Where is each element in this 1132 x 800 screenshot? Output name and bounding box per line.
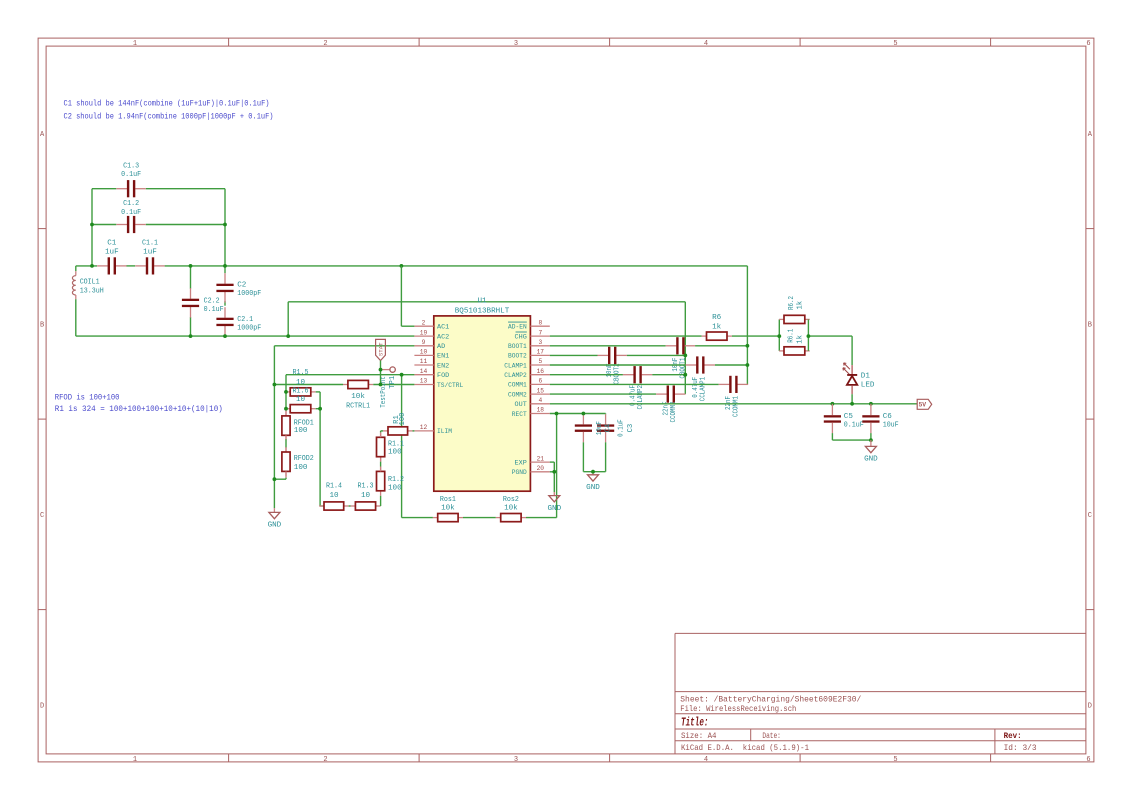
svg-text:100: 100 [294,427,308,435]
wire left cap-bank vertical x=92 [91,189,93,266]
wire bottom row [320,505,324,507]
wire R1.1 to R1 [380,431,382,433]
resistor Ros2 [496,514,526,522]
wire COMM1 row [550,383,719,385]
svg-text:GND: GND [268,522,282,530]
capacitor C1.3 [116,180,145,197]
svg-text:COMM2: COMM2 [508,391,527,399]
pin 12 ILIM [414,424,452,436]
svg-text:1000pF: 1000pF [237,290,261,298]
svg-text:10k: 10k [441,504,455,512]
svg-text:10: 10 [329,492,339,500]
svg-text:C1: C1 [107,240,117,248]
resistor RFOD2 [282,447,290,476]
svg-text:18: 18 [537,407,545,414]
ground [586,475,600,492]
junction node (556.5,413.5) [555,412,559,416]
wire Ros riser to RECT [556,414,558,518]
svg-text:CCOMM1: CCOMM1 [733,396,741,417]
svg-text:KiCad E.D.A. kicad (5.1.9)-1: KiCad E.D.A. kicad (5.1.9)-1 [681,743,809,753]
svg-text:B: B [40,321,44,329]
wire CHG row [550,335,702,337]
wire Ros row [402,517,433,519]
wire CLAMP2 row [550,374,623,376]
wire AC2 riser [287,302,289,336]
pin 18 RECT [512,407,550,419]
svg-text:0.1uF: 0.1uF [204,306,224,314]
svg-text:10: 10 [296,396,306,404]
wire PGND to GND [550,471,555,473]
svg-text:CCLAMP1: CCLAMP1 [700,377,708,402]
wire C2.2 branch [190,266,192,289]
junction node (92,224.5) [90,223,94,227]
wire AC1 main row [76,265,97,267]
capacitor C2.2 [182,288,199,317]
pin 20 PGND [512,465,550,477]
svg-text:COIL1: COIL1 [80,279,100,287]
svg-text:ILIM: ILIM [437,428,452,436]
wire RECT row [550,413,606,415]
svg-text:10uF: 10uF [883,421,899,429]
wire CLAMP1 row [550,364,686,366]
svg-text:C2: C2 [237,282,247,290]
svg-text:2: 2 [422,319,426,326]
capacitor CCLAMP2 [623,366,652,383]
pin 11 EN2 [414,358,449,370]
svg-text:C1 should be 144nF(combine (1u: C1 should be 144nF(combine (1uF+1uF)|0.1… [64,100,270,109]
svg-text:1: 1 [133,756,137,764]
wire BOOT1 row [550,345,666,347]
svg-text:EN2: EN2 [437,362,449,370]
wire BOOT2 row [550,354,598,356]
resistor Ros1 [433,514,463,522]
wire R1.5/R1.6 right column [316,391,320,393]
capacitor C3 branch [605,413,607,416]
pin 10 EN1 [414,349,449,361]
junction node (286,391.9) [284,390,288,394]
svg-text:TP1: TP1 [389,376,397,389]
svg-text:3: 3 [514,40,518,48]
svg-text:C3: C3 [627,424,635,433]
pin 14 FOD [414,368,449,380]
junction node (380.5,369.6) [379,368,383,372]
junction node (401.6,374.7) [400,373,404,377]
svg-text:10: 10 [296,379,306,387]
svg-text:6: 6 [1086,756,1090,764]
resistor RCTRL1 [343,380,373,388]
svg-text:1k: 1k [797,301,805,310]
pin 8 AD-EN [508,319,550,331]
junction node (808.4,336.1) [807,334,811,338]
capacitor CBOOT1 [666,337,695,354]
pin 17 BOOT2 [508,349,550,361]
svg-text:3: 3 [514,756,518,764]
svg-text:R1.3: R1.3 [358,483,374,491]
svg-text:1000pF: 1000pF [237,325,261,333]
title block [675,633,1086,754]
svg-text:C1.3: C1.3 [123,162,139,170]
capacitor C1.2 [116,216,145,233]
svg-text:100: 100 [399,413,407,426]
capacitor C1.1 [135,257,164,274]
junction node (779.3,336.1) [777,334,781,338]
svg-text:AC2: AC2 [437,333,449,341]
svg-text:RCTRL1: RCTRL1 [346,403,370,411]
wire AD row [274,345,414,347]
svg-text:100: 100 [388,484,402,492]
svg-text:C2 should be 1.94nF(combine 10: C2 should be 1.94nF(combine 1000pF|1000p… [64,113,274,122]
svg-text:19: 19 [420,329,428,336]
wire C5/C6 bottom [832,439,871,441]
svg-text:10: 10 [420,349,428,356]
ground [268,512,282,529]
svg-text:4: 4 [538,397,542,404]
svg-text:10: 10 [361,492,371,500]
junction node (225,224.5) [223,223,227,227]
power flag 5V [917,399,932,409]
svg-text:2: 2 [323,756,327,764]
resistor R1.3 [351,502,381,510]
svg-text:C1.1: C1.1 [142,240,158,248]
resistor R1.1 [377,432,385,461]
svg-text:BQ51013BRHLT: BQ51013BRHLT [455,307,510,315]
svg-text:C6: C6 [883,413,893,421]
wire AC2 drop to BOOT2/CLAMP2/COMM2 caps [684,302,686,394]
svg-text:15: 15 [537,387,545,394]
pin 3 BOOT1 [508,339,550,351]
resistor R6.1 [779,347,810,355]
svg-text:21: 21 [537,455,545,462]
svg-text:6: 6 [1086,40,1090,48]
svg-text:5V: 5V [918,402,926,409]
svg-text:100: 100 [388,449,402,457]
junction node (593,471.7) [591,470,595,474]
wire COMM2 row [550,393,656,395]
svg-text:6: 6 [538,378,542,385]
svg-text:10uF: 10uF [596,421,604,435]
junction node (320.1,408.7) [318,407,322,411]
resistor RFOD1 [282,411,290,440]
junction node (685.3,374.7) [683,373,687,377]
capacitor C4 [575,424,592,432]
wire R1 to ILIM [413,430,415,432]
svg-text:3: 3 [538,339,542,346]
wire AC2 upper run [288,301,685,303]
capacitor C4 branch [582,414,584,425]
junction node (92,265.9) [90,264,94,268]
svg-text:10k: 10k [504,504,518,512]
resistor R6 [702,332,732,340]
svg-text:C5: C5 [844,413,854,421]
svg-text:12: 12 [420,424,428,431]
svg-text:9: 9 [422,339,426,346]
svg-text:C1.2: C1.2 [123,200,139,208]
svg-text:C: C [1088,512,1092,520]
svg-text:RFOD2: RFOD2 [294,455,314,463]
svg-text:10k: 10k [351,393,365,401]
svg-text:R6: R6 [712,314,722,322]
svg-text:Sheet: /BatteryCharging/Sheet6: Sheet: /BatteryCharging/Sheet609E2F30/ [680,694,861,704]
svg-text:CCOMM2: CCOMM2 [670,402,678,423]
svg-text:COMM1: COMM1 [508,382,527,390]
svg-text:7: 7 [538,329,542,336]
junction node (583.4,413.5) [582,412,586,416]
svg-text:BOOT2: BOOT2 [508,353,527,361]
svg-text:FOD: FOD [437,372,449,380]
svg-text:Ros2: Ros2 [503,496,519,504]
capacitor CCLAMP1 [686,356,715,373]
svg-text:C2.1: C2.1 [237,316,253,324]
wire C1.3 row [92,188,116,190]
svg-text:8: 8 [538,319,542,326]
svg-text:CHG: CHG [515,333,527,341]
junction node (225,265.9) [223,264,227,268]
capacitor C2.1 [216,307,233,336]
svg-text:D: D [40,702,44,710]
ground [547,496,561,513]
wire TP node to TS row [380,370,382,385]
svg-text:GND: GND [586,484,600,492]
svg-text:TS/CTRL: TS/CTRL [437,382,463,390]
capacitor CCOMM2 [656,386,685,403]
resistor R1.4 [319,502,349,510]
svg-text:CLAMP2: CLAMP2 [504,372,527,380]
svg-text:RECT: RECT [512,411,527,419]
svg-text:1uF: 1uF [143,249,157,257]
svg-text:LED: LED [861,381,875,389]
svg-text:R6.2: R6.2 [788,296,796,310]
pin 16 CLAMP2 [504,368,550,380]
pin 9 AD [414,339,445,351]
wire EXP to PGND [550,461,555,463]
svg-text:4: 4 [704,40,708,48]
svg-text:0.1uF: 0.1uF [844,421,864,429]
wire STAT to node [380,361,382,370]
svg-text:R6.1: R6.1 [787,329,795,343]
svg-text:CLAMP1: CLAMP1 [504,362,527,370]
junction node (274.4,479.2) [273,477,277,481]
wire RFOD2 bottom to GND column [285,478,287,480]
wire AC1 pin drop [400,266,402,326]
wire FOD row [286,374,414,376]
resistor R1.5 [285,388,315,396]
svg-text:D: D [1088,702,1092,710]
svg-text:1k: 1k [712,324,722,332]
wire R6 pair right column [807,319,809,351]
wire RFOD stub [285,409,287,416]
svg-text:AD-EN: AD-EN [508,324,527,332]
pin 15 COMM2 [508,387,550,399]
svg-text:EN1: EN1 [437,353,449,361]
resistor R6.2 [779,315,810,323]
junction node (286,408.7) [284,407,288,411]
junction node (401.4,265.9) [400,264,404,268]
svg-text:R1 is 324 = 100+100+100+10+10+: R1 is 324 = 100+100+100+10+10+(10|10) [55,405,223,414]
svg-text:C: C [40,512,44,520]
capacitor C3 [597,424,614,432]
svg-text:14: 14 [420,368,428,375]
pin 5 CLAMP1 [504,358,550,370]
svg-text:GND: GND [547,505,561,513]
wire C1.2 row [92,224,116,226]
svg-text:5: 5 [893,756,897,764]
svg-text:17: 17 [537,349,545,356]
svg-text:PGND: PGND [512,469,527,477]
test point TP1 [380,367,397,408]
junction node (852.1,403.8) [850,402,854,406]
svg-text:1k: 1k [796,335,804,344]
junction node (685.3,355.4) [683,354,687,358]
svg-text:B: B [1088,321,1092,329]
svg-text:Rev:: Rev: [1004,732,1022,741]
pin 6 COMM1 [508,378,550,390]
capacitor C1 [97,257,126,274]
resistor R1.2 [377,467,385,496]
svg-text:D1: D1 [861,372,871,380]
svg-text:13: 13 [420,378,428,385]
pin 13 TS/CTRL [414,378,463,390]
svg-text:AC1: AC1 [437,324,449,332]
svg-text:AD: AD [437,343,445,351]
wires C3/C4 bottoms [582,442,584,471]
junction node (747.4,345.8) [746,344,750,348]
LED D1 [843,363,857,394]
capacitor CCOMM1 [719,376,748,393]
svg-text:U1: U1 [477,297,487,305]
svg-text:13.3uH: 13.3uH [80,287,104,295]
svg-text:1: 1 [133,40,137,48]
svg-text:C4: C4 [604,424,612,433]
svg-text:R1.4: R1.4 [326,483,342,491]
svg-text:R1.2: R1.2 [388,476,404,484]
wire R1.2 riser [380,496,382,506]
svg-text:5: 5 [893,40,897,48]
svg-text:2: 2 [323,40,327,48]
svg-text:RFOD is 100+100: RFOD is 100+100 [55,394,120,403]
capacitor C2 [216,273,233,302]
svg-text:GND: GND [864,456,878,464]
junction node (832.4,403.8) [831,402,835,406]
svg-text:STAT: STAT [378,342,385,356]
capacitor C5 [824,415,841,422]
svg-text:0.1uF: 0.1uF [121,171,141,179]
pin 4 OUT [515,397,550,409]
junction node (870.9,403.8) [869,402,873,406]
wire AC1 drop to BOOT1/CLAMP1/COMM1 caps [746,266,748,385]
wire R1.5/R1.6 left column [285,375,287,409]
junction node (225,336.1) [223,334,227,338]
wire FOD riser to Ros row [401,375,403,518]
wire CHG to LED [808,335,852,337]
junction node (747.4,365) [746,363,750,367]
pin 7 CHG [515,329,550,341]
inductor COIL1 [72,266,75,336]
junction node (870.9,440.1) [869,438,873,442]
pin 19 AC2 [414,329,449,341]
svg-text:4: 4 [704,756,708,764]
pin 21 EXP [515,455,550,467]
wire R6 pair left column [778,319,780,351]
svg-text:OUT: OUT [515,401,527,409]
svg-text:Id: 3/3: Id: 3/3 [1004,743,1037,753]
resistor R1.6 [285,405,315,413]
wire AC2 bottom rail [76,335,415,337]
junction node (554.3,471.8) [552,470,556,474]
junction node (274.4,384.5) [273,383,277,387]
svg-text:16: 16 [537,368,545,375]
wire TS/CTRL row left [274,384,343,386]
svg-text:0.1uF: 0.1uF [618,419,626,437]
svg-text:Size: A4: Size: A4 [681,731,717,741]
svg-text:R1.6: R1.6 [293,387,309,395]
resistor R1 [383,427,412,435]
svg-text:0.1uF: 0.1uF [121,209,141,217]
wire right cap-bank vertical x=225 [224,189,226,274]
svg-text:1uF: 1uF [105,249,119,257]
svg-text:C2.2: C2.2 [204,297,220,305]
svg-text:EXP: EXP [515,459,527,467]
wire OUT rail [550,403,917,405]
svg-text:5: 5 [538,358,542,365]
svg-text:Ros1: Ros1 [440,496,456,504]
svg-text:R1.1: R1.1 [388,441,404,449]
op-amp U1 BQ51013BRHLT body [434,316,531,491]
svg-text:100: 100 [294,464,308,472]
capacitor C5 branch [831,404,833,415]
svg-text:Date:: Date: [762,732,781,741]
junction node (380.5,384.5) [379,383,383,387]
wire left GND column [273,346,275,508]
svg-text:BOOT1: BOOT1 [508,343,527,351]
svg-text:R1.5: R1.5 [293,369,309,377]
capacitor C6 [862,415,879,422]
svg-text:11: 11 [420,358,428,365]
svg-text:File: WirelessReceiving.sch: File: WirelessReceiving.sch [680,704,796,714]
svg-text:CCLAMP2: CCLAMP2 [637,385,645,410]
global label STAT [376,339,386,360]
junction node (288.2,336.1) [286,334,290,338]
svg-text:20: 20 [537,465,545,472]
svg-text:Title:: Title: [681,717,709,730]
capacitor C6 branch [870,404,872,415]
junction node (190.5,265.9) [189,264,193,268]
junction node (190.5,336.1) [189,334,193,338]
pin 2 AC1 [414,319,449,331]
ground [864,446,878,463]
capacitor CBOOT2 [598,347,627,364]
wire TS/CTRL row right [373,384,414,386]
